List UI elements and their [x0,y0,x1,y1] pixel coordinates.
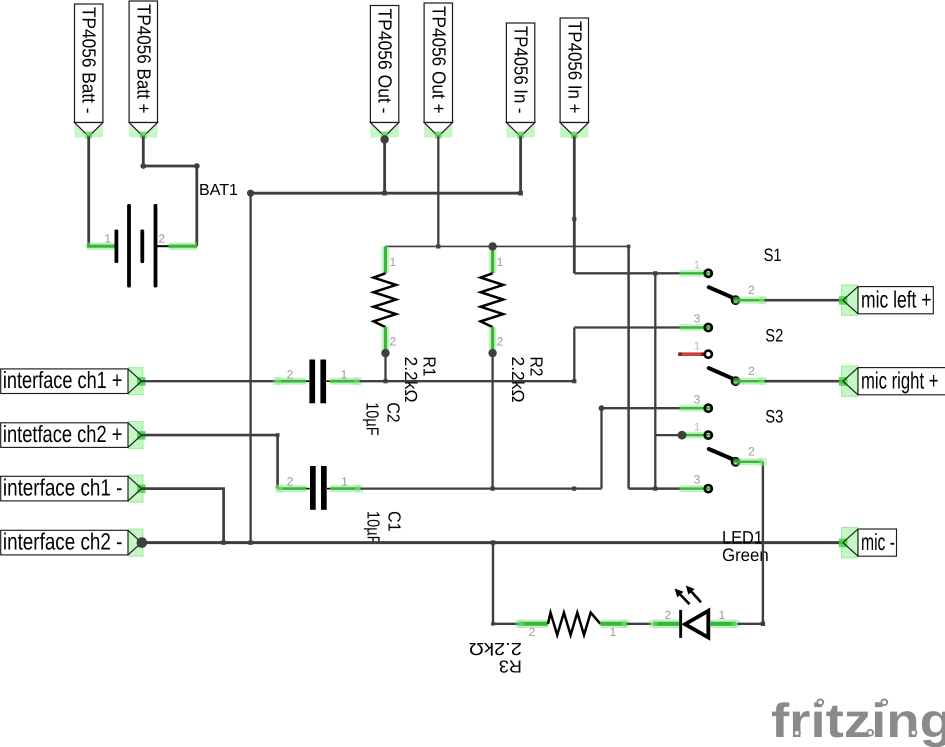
svg-text:TP4056 Out +: TP4056 Out + [427,6,448,114]
label S2 [765,326,783,346]
label C1 [384,511,404,532]
label R1 [420,357,440,377]
test point TP3 "TP4056 Out -" [370,6,398,139]
resistor R2 pin2 (green) [489,327,497,350]
LED1 pin2 (green) [653,619,680,628]
pin number 2 of C2 [287,367,294,381]
capacitor C2 pin2 (green) [276,378,309,385]
resistor R1 pin2 (green) [382,327,390,350]
svg-text:R2: R2 [527,357,547,377]
switch S3 pin1 circle [705,432,712,439]
label LED1 [722,528,763,548]
svg-text:S1: S1 [764,245,782,265]
junction dot at S3 pin1 (682,435.1) [678,431,687,440]
net flag "interface ch1 +" [1,367,146,395]
svg-text:1: 1 [341,367,348,381]
svg-text:TP4056 In +: TP4056 In + [563,21,584,114]
glow at S1 pin2 end [759,296,767,304]
switch S2 pin1 circle [705,351,712,358]
test point TP2 "TP4056 Batt +" [129,1,157,139]
label S3 [765,406,783,426]
switch S3 pin2 (green) [733,458,763,465]
net flag "intetface ch2 +" [1,421,146,449]
svg-text:10µF: 10µF [362,402,382,436]
svg-text:2.2kΩ: 2.2kΩ [469,639,522,659]
wire C2 pin1 to x=574 riser (ch1+ line) [360,380,575,382]
pin number 2 of S3 [748,445,755,459]
svg-text:2: 2 [664,608,671,622]
switch S2 lever [709,368,736,380]
svg-text:mic -: mic - [861,529,895,555]
LED1 symbol (bar + triangle) [679,610,708,638]
switch S3 pin1 (green) [682,432,711,439]
wire ch2- line down to R3 [493,543,518,624]
pin number 1 of S2 [694,341,700,353]
pin number 1 of C1 [341,475,348,489]
svg-text:C1: C1 [384,511,404,532]
label R3 (rotated 180) [499,656,522,676]
junction square rail end (520.6,193) [518,191,523,196]
resistor R3 pin1 (green) [600,620,627,628]
wire stub to S3 pin1 dot [655,434,682,436]
wire TP Out- down to BAT1 rail [383,137,386,194]
svg-text:1: 1 [341,475,348,489]
switch S3 pin3 (green) [680,485,711,492]
wire LED1 pin1 up to S3 pin2 [737,462,763,624]
pin number 3 of S1 [694,312,701,326]
pin number 2 of BAT1 [158,232,165,246]
switch S1 pin2 (green) [733,297,764,304]
switch S2 pin3 (green) [680,405,711,412]
svg-text:interface ch1 -: interface ch1 - [3,475,123,501]
svg-text:2: 2 [748,364,755,378]
test point TP6 "TP4056 In +" [560,18,588,139]
pin number 3 of S2 [694,393,701,407]
pin number 1 of R3 [610,625,617,639]
svg-text:3: 3 [694,473,701,487]
svg-text:1: 1 [694,260,700,272]
glow at LED1 pin2 end [649,620,657,628]
wire S1 pin2 to mic left flag [765,299,843,302]
svg-text:BAT1: BAT1 [199,182,238,199]
switch S3 pin3 circle [705,485,712,492]
net flag "mic left +" [839,285,933,315]
junction dot at TP Out- apex [380,135,388,143]
glow at C2 pin1 end [354,377,362,385]
svg-text:R1: R1 [420,357,440,377]
label BAT1 [199,182,238,199]
wire interface ch2- to mic- flag [142,541,843,544]
net flag "mic right +" [839,366,945,396]
battery BAT1 pin 2 (green) [169,242,197,250]
pin number 2 of S1 [748,283,755,297]
pin number 1 of LED1 [718,608,725,622]
svg-text:fritzing: fritzing [771,695,945,747]
switch S1 pin2 circle [732,297,739,304]
value label 2.2k&#937; of R1 [401,357,421,403]
junction dot at R1 pin2 (385.5,353.1) [381,349,389,357]
wire interface ch1- to ch2- line [142,489,224,543]
LED1 emission arrow 2 [686,586,701,603]
svg-text:1: 1 [104,232,111,246]
LED1 emission arrow 1 [675,589,690,605]
glow at R3 pin1 end [622,620,630,628]
svg-text:2: 2 [158,232,165,246]
capacitor C1 plates [310,466,327,510]
svg-text:interface ch1 +: interface ch1 + [3,367,123,393]
capacitor C2 plates [309,360,326,404]
wire TP In- down to rail end [519,137,522,194]
glow at R3 pin2 end [516,620,524,628]
pin number 1 of BAT1 [104,232,111,246]
wire rail2 corner down to S3 pin3 row [627,246,630,488]
switch S1 pin1 circle [705,270,712,277]
svg-text:2: 2 [390,335,397,349]
svg-text:interface ch2 -: interface ch2 - [3,529,123,555]
resistor R2 zigzag [481,273,504,327]
switch S1 lever [709,287,736,299]
svg-text:10µF: 10µF [363,511,383,545]
svg-text:TP4056 Batt -: TP4056 Batt - [78,7,99,114]
label R2 [527,357,547,377]
wire In+ to S1 pin1 [574,272,679,274]
wire S3 pin3 row (corner to green) [629,487,680,490]
svg-text:1: 1 [610,625,617,639]
pin number 2 of C1 [287,475,294,489]
wire riser to S1 pin3 row [573,328,575,382]
fritzing watermark logo [771,695,945,747]
wire riser up to S2 pin3 row [600,408,602,488]
label C2 [383,402,403,423]
svg-text:mic right +: mic right + [861,367,939,393]
value label 10&#181;F of C2 [362,402,382,436]
wire TP In+ down to S1 pin1 row [573,137,576,274]
svg-text:1: 1 [694,341,700,353]
resistor R1 pin1 (green) [382,246,390,273]
wire S2 pin2 to mic right flag [765,380,843,383]
junction square at (493.0,542.6) [491,540,495,544]
junction square at (628.6,246.4) [627,245,631,249]
switch S3 lever [709,449,736,460]
junction dot at ch2- flag pin [137,537,148,548]
pin number 2 of R1 [390,335,397,349]
svg-text:2: 2 [497,335,504,349]
net flag "mic -" [839,527,897,557]
junction square at (223.6,542.6) [221,540,225,544]
capacitor C2 pin1 (green) [326,380,359,382]
resistor R2 pin1 (green) [489,246,497,273]
switch S2 pin2 circle [732,378,739,385]
junction square at (493.0,624.5) [491,622,495,626]
wire S2 pin3 row [602,407,680,409]
svg-text:1: 1 [390,255,397,269]
wire interface ch1+ to C2 pin2 [142,380,276,382]
svg-text:2.2kΩ: 2.2kΩ [508,357,528,403]
wire BAT1 rail (node to TP In- drop) [251,192,521,195]
value label Green of LED1 [722,545,769,565]
junction square on In+ wire (574.3,219) [572,217,576,221]
junction square at (655.3,488.6) [653,487,657,491]
junction dot BAT1 node (250.6,193) [247,190,254,197]
resistor R3 zigzag [548,613,600,635]
svg-text:TP4056 Out -: TP4056 Out - [374,9,395,114]
capacitor C1 pin2 (green) [278,485,310,492]
junction dot at R2 pin2 (492.6,353.1) [488,349,496,357]
pin number 2 of R3 [529,625,536,639]
switch S2 pin2 (green) [733,378,764,385]
test point TP4 "TP4056 Out +" [424,3,452,139]
wire S1pin1 row down to S3 area (x=655.3) [654,273,656,488]
svg-text:1: 1 [718,608,725,622]
switch S3 pin2 circle [732,458,739,465]
svg-text:TP4056 Batt +: TP4056 Batt + [132,4,153,114]
junction square at (250.6,542.6) [248,540,252,544]
wire rail2 R1 pin1 to corner [386,245,629,247]
svg-text:mic left +: mic left + [861,286,932,312]
wire C1 pin1 to S2 pin3 riser [360,487,601,489]
junction square at (762.9,624.5) [761,622,765,626]
glow at S3 pin2 corner [759,458,767,466]
pin number 3 of S3 [694,473,701,487]
svg-text:S3: S3 [765,406,783,426]
glow at S2 pin2 end [759,377,767,385]
wire TP Batt+ to BAT1 pin2 (three segments) [143,137,197,247]
pin number 2 of S2 [748,364,755,378]
junction square at (384.6,193) [382,191,387,196]
svg-text:3: 3 [694,312,701,326]
glow at C1 pin1 end [355,485,363,493]
capacitor C1 pin1 (green) [327,488,360,490]
wire R2 pin2 down to C1 line [491,353,493,489]
resistor R3 pin2 (green) [518,620,548,628]
junction square at (574.3,381.2) [572,379,576,383]
pin number 1 of R1 [390,255,397,269]
net flag "interface ch1 -" [1,475,146,503]
wire TP Out+ down to R1/R2 rail [437,137,439,247]
resistor R1 zigzag [374,273,397,327]
battery BAT1 pin 1 (green) [87,242,115,250]
junction bend dot at (196.8,166) [194,163,200,169]
glow at LED1 pin1 end [732,620,740,628]
wire intetface ch2+ to C1 pin2 [142,435,278,489]
svg-text:2: 2 [287,475,294,489]
pin number 1 of S3 [694,422,700,434]
svg-text:2: 2 [748,283,755,297]
svg-text:2.2kΩ: 2.2kΩ [401,357,421,403]
svg-text:3: 3 [694,393,701,407]
svg-text:2: 2 [529,625,536,639]
value label 10&#181;F of C1 [363,511,383,545]
switch S2 pin3 circle [705,405,712,412]
svg-text:2: 2 [287,367,294,381]
junction square at (655.3,273.3) [653,271,657,275]
wire R3 pin1 to LED1 pin2 [627,623,652,625]
pin number 1 of R2 [497,255,504,269]
junction bend dot at (143.3,166) [140,163,146,169]
pin number 2 of LED1 [664,608,671,622]
pin number 2 of R2 [497,335,504,349]
wire R1 pin2 down to ch1+ line [384,353,386,381]
junction dot at (601.5,408.2) [599,405,605,411]
junction square at (385.5,381.2) [383,379,387,383]
junction square at (438.3,246.4) [436,244,440,248]
wire S1 pin3 row [574,326,679,328]
battery BAT1 [115,204,169,288]
wire TP Batt- to BAT1 pin1 [87,137,90,247]
pin number 1 of C2 [341,367,348,381]
svg-text:C2: C2 [383,402,403,423]
svg-text:intetface ch2 +: intetface ch2 + [3,421,123,447]
net flag "interface ch2 -" [1,529,146,557]
switch S1 pin3 (green) [680,324,711,331]
LED1 pin1 (green) [710,619,736,628]
switch S2 pin1 unconnected (red wire) [678,352,704,356]
junction dot at R2 pin1 (492.6,246.4) [488,242,496,250]
pin number 1 of S1 [694,260,700,272]
label S1 [764,245,782,265]
svg-text:1: 1 [694,422,700,434]
svg-text:1: 1 [497,255,504,269]
glow at C2 pin2 end [273,377,281,385]
svg-text:TP4056 In -: TP4056 In - [510,26,531,114]
junction square at (277.6,435.1) [276,433,280,437]
wire BAT1 node down to interface ch2- line [249,193,251,542]
switch S1 pin3 circle [705,324,712,331]
test point TP1 "TP4056 Batt -" [75,4,103,139]
switch S1 pin1 (green) [680,270,711,277]
svg-text:S2: S2 [765,326,783,346]
glow at C1 pin2 end [275,485,283,493]
value label 2.2k&#937; of R2 [508,357,528,403]
svg-text:Green: Green [722,545,769,565]
junction square at (492.6,488.6) [491,487,495,491]
junction square at (574.1,488.6) [572,487,576,491]
value label 2.2k&#937; of R3 (rotated 180) [469,639,522,659]
svg-text:2: 2 [748,445,755,459]
test point TP5 "TP4056 In -" [506,23,534,139]
